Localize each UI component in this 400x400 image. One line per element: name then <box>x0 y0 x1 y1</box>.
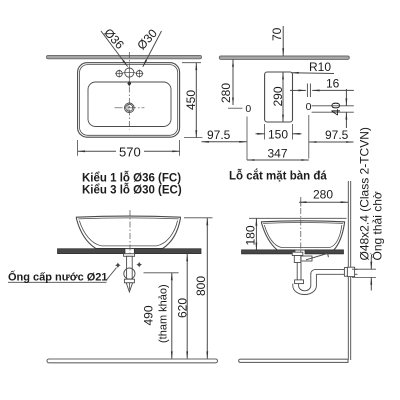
svg-text:Kiểu 1 lỗ Ø36 (FC): Kiểu 1 lỗ Ø36 (FC) <box>82 172 181 185</box>
floor left slab <box>47 359 218 363</box>
dim 800 <box>206 218 208 359</box>
svg-text:Ống thải chờ: Ống thải chờ <box>370 191 385 260</box>
dim 570 <box>77 140 79 156</box>
wall coupling <box>344 268 347 277</box>
svg-text:280: 280 <box>313 188 333 202</box>
svg-text:Lỗ cắt mặt bàn đá: Lỗ cắt mặt bàn đá <box>229 170 327 183</box>
leader O30 <box>143 31 162 67</box>
dim O48 arrows <box>370 257 372 269</box>
ref line left (zero) <box>246 117 248 161</box>
dim 280 side <box>299 201 348 203</box>
supply flange <box>124 254 135 257</box>
trap nut <box>295 280 304 284</box>
center diamond on basin edge <box>127 81 131 86</box>
supply stub lines <box>312 105 354 107</box>
side centerline <box>300 197 302 207</box>
svg-text:490: 490 <box>142 305 156 325</box>
bowl side rim inner top <box>263 222 343 225</box>
svg-text:Ø36: Ø36 <box>101 26 127 52</box>
svg-text:290: 290 <box>271 86 285 106</box>
counter edge right (plan) <box>219 56 349 59</box>
svg-text:0: 0 <box>245 103 251 115</box>
counter bar (side) <box>242 250 296 254</box>
front centerline <box>129 210 131 256</box>
svg-text:450: 450 <box>184 90 198 110</box>
U bend <box>293 273 317 295</box>
counter bar (front) <box>58 249 126 254</box>
svg-text:Ø30: Ø30 <box>134 26 160 52</box>
svg-text:40: 40 <box>329 102 343 116</box>
dim O48 ext lines <box>352 268 376 270</box>
faucet hole right <box>135 70 143 78</box>
dim 180 <box>255 218 257 250</box>
svg-text:280: 280 <box>219 83 233 103</box>
floor right slab <box>239 359 348 362</box>
elbow to horizontal pipe <box>311 269 345 274</box>
bowl side outer <box>262 221 345 250</box>
leader to supply text <box>106 268 117 281</box>
svg-text:Kiểu 3 lỗ Ø30 (EC): Kiểu 3 lỗ Ø30 (EC) <box>82 184 182 197</box>
svg-text:620: 620 <box>176 298 190 318</box>
diamond left <box>115 262 121 268</box>
bowl front inner <box>79 221 177 246</box>
faucet hole left <box>115 70 123 78</box>
dim 16 with break <box>290 89 306 91</box>
dim 347 <box>247 159 309 161</box>
svg-text:R10: R10 <box>309 60 331 74</box>
diamond right <box>136 262 142 268</box>
trap vertical pipe <box>296 263 298 280</box>
svg-text:70: 70 <box>270 27 284 41</box>
svg-text:16: 16 <box>326 77 340 91</box>
sink outer second line <box>80 65 178 136</box>
pop-up linkage <box>301 256 312 261</box>
rim extension line <box>249 217 347 219</box>
wall <box>347 181 349 360</box>
sink outer outline (plan) <box>78 63 180 138</box>
cutout rectangle <box>265 72 293 122</box>
dim 97.5 left <box>202 141 247 143</box>
svg-text:347: 347 <box>268 147 288 161</box>
dim 620 <box>186 254 188 359</box>
dim 290 <box>282 72 284 122</box>
svg-text:97.5: 97.5 <box>325 128 349 142</box>
dim 490 <box>171 273 173 359</box>
valve ref line <box>144 272 179 274</box>
svg-text:Ø48x2.4 (Class 2-TCVN): Ø48x2.4 (Class 2-TCVN) <box>358 127 372 260</box>
plan centerline vertical <box>128 52 130 130</box>
dim 40 <box>345 89 347 106</box>
dim 450 <box>182 62 201 64</box>
svg-text:180: 180 <box>244 225 258 245</box>
supply cone tip <box>126 283 132 292</box>
counter edge left (plan) <box>47 55 202 58</box>
supply nut <box>124 279 134 283</box>
plan centerline horizontal at drain <box>115 107 145 109</box>
basin inner outline <box>88 82 171 127</box>
svg-text:97.5: 97.5 <box>207 128 231 142</box>
svg-text:(tham khảo): (tham khảo) <box>158 284 170 343</box>
drain flange under counter <box>292 252 303 255</box>
dim 280 top-right <box>232 59 234 105</box>
R10 leader <box>291 72 334 75</box>
bowl front outer <box>76 216 180 249</box>
dim 70 <box>282 26 284 56</box>
supply valve circle <box>124 268 135 279</box>
supply pipe <box>127 256 133 279</box>
dim 97.5 right <box>309 141 354 143</box>
bowl side inner <box>264 225 342 248</box>
svg-text:800: 800 <box>194 276 208 296</box>
bowl front rim inner top <box>78 218 179 219</box>
svg-text:150: 150 <box>268 128 288 142</box>
svg-text:570: 570 <box>119 145 141 160</box>
leader O36 <box>101 31 128 67</box>
ref line right (zero) <box>308 115 310 159</box>
svg-text:Ống cấp nước Ø21: Ống cấp nước Ø21 <box>8 270 108 284</box>
rim extension line <box>184 217 213 219</box>
svg-text:0: 0 <box>306 101 312 113</box>
faucet hole center <box>123 67 135 79</box>
dim 150 <box>264 124 266 140</box>
drain circles <box>125 103 135 113</box>
